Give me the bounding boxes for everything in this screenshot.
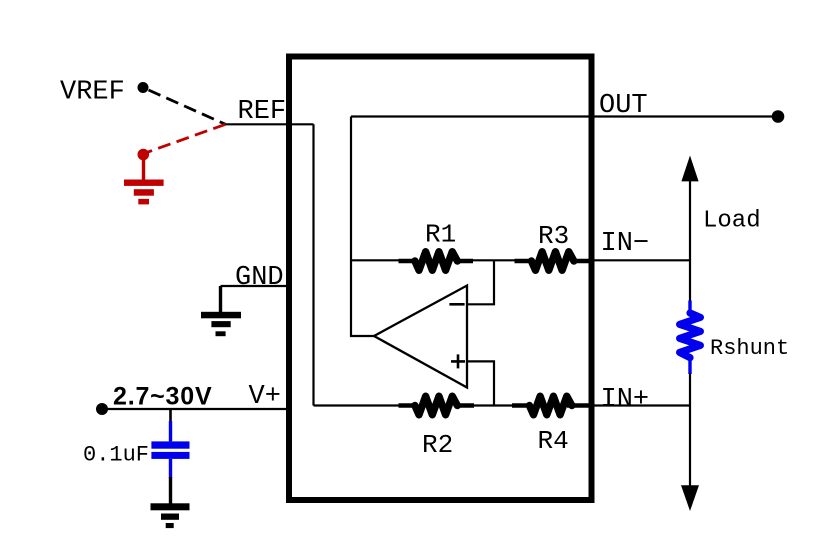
wire red ground stub (142, 157, 145, 180)
wire R1 row (351, 259, 690, 261)
svg-text:OUT: OUT (599, 91, 648, 121)
svg-text:Load: Load (703, 208, 761, 235)
wire dashed black VREF to REF (149, 90, 226, 124)
svg-text:IN−: IN− (601, 229, 650, 259)
svg-text:R2: R2 (422, 430, 453, 460)
svg-text:R3: R3 (538, 221, 569, 251)
node V+ terminal dot (96, 403, 108, 415)
svg-text:Rshunt: Rshunt (710, 336, 789, 361)
wire capacitor bottom stub black (169, 477, 172, 504)
node red dot (138, 149, 150, 161)
ground GND symbol (201, 312, 241, 336)
wire load vertical upper (689, 180, 691, 301)
resistor R4 (512, 396, 591, 415)
resistor R3 (515, 252, 592, 271)
wire dashed red ground to REF (148, 124, 226, 152)
op-amp minus sign (449, 303, 464, 306)
svg-text:2.7~30V: 2.7~30V (113, 383, 212, 411)
capacitor C1 0.1uF blue (151, 421, 189, 478)
svg-text:R1: R1 (425, 220, 456, 250)
wire GND vertical stub (219, 286, 222, 312)
svg-text:VREF: VREF (60, 78, 125, 108)
svg-text:0.1uF: 0.1uF (83, 443, 149, 468)
wire capacitor top stub black (169, 409, 172, 422)
wire REF pin (226, 123, 314, 125)
svg-text:R4: R4 (538, 426, 569, 456)
wire V+ pin (102, 408, 292, 410)
wire GND pin (221, 285, 293, 287)
op-amp plus sign (451, 354, 465, 368)
wire plus input (467, 361, 494, 405)
IC body box U1 (289, 57, 592, 501)
node VREF dot (138, 82, 149, 93)
wire REF vertical inside box (312, 124, 314, 405)
wire R2 row (314, 404, 691, 406)
wire load vertical lower (689, 374, 691, 487)
svg-text:REF: REF (238, 97, 287, 127)
resistor Rshunt blue (680, 301, 701, 375)
arrow Load up (681, 156, 698, 182)
resistor R2 (399, 396, 475, 415)
svg-text:V+: V+ (249, 382, 281, 412)
ground red symbol (124, 180, 164, 205)
wire OUT horizontal (351, 115, 779, 117)
op-amp U1 triangle (374, 286, 467, 388)
svg-text:GND: GND (235, 263, 284, 293)
svg-text:IN+: IN+ (601, 385, 650, 415)
arrow Load down (681, 485, 699, 511)
node OUT terminal dot (772, 110, 785, 123)
wire minus input (467, 260, 494, 304)
wire feedback vertical from OUT to op-amp output (351, 117, 374, 337)
resistor R1 (399, 252, 474, 271)
ground capacitor symbol (151, 503, 190, 528)
